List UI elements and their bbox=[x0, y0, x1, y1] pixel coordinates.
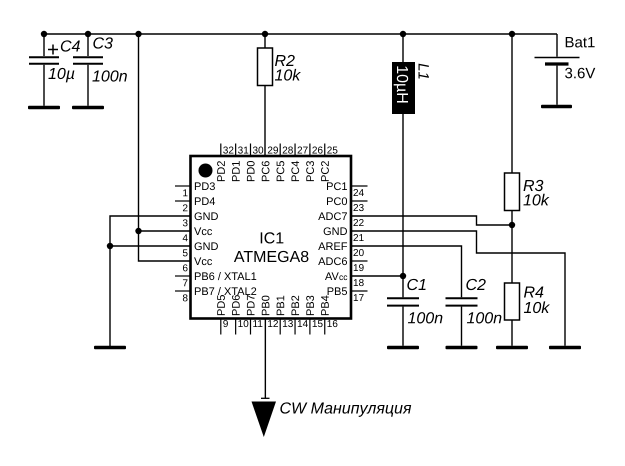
ground C4 bbox=[28, 106, 60, 109]
pin 9 PD5 bbox=[217, 295, 228, 334]
capacitor C3 bbox=[73, 34, 127, 106]
resistor R2 bbox=[258, 34, 301, 156]
wire GND pins 3 and 5 to ground bbox=[110, 216, 191, 347]
pin 13 PB1 bbox=[277, 296, 293, 335]
wire end tick bbox=[261, 397, 270, 399]
pin 6 Vcc bbox=[183, 257, 212, 271]
node GND-pin5 bbox=[107, 243, 113, 249]
wire PB0 pin12 output bbox=[264, 319, 266, 399]
pin 10 PD6 bbox=[232, 295, 248, 334]
inductor L1 bbox=[392, 34, 429, 276]
wire GND pin21 to ground bbox=[351, 231, 565, 346]
wire battery drop bbox=[556, 34, 558, 57]
ground C2 bbox=[446, 346, 478, 349]
wire Vcc drop to pins 4 and 6 bbox=[139, 34, 191, 261]
pin 16 PB4 bbox=[321, 296, 337, 335]
pin 17 PB5 bbox=[328, 287, 368, 301]
node rail-C4 bbox=[41, 31, 47, 37]
pin 32 PD2 bbox=[217, 144, 233, 182]
node rail-L1 bbox=[400, 31, 406, 37]
wire AREF pin20 to C2 bbox=[351, 246, 462, 297]
pin 26 PC3 bbox=[306, 144, 322, 182]
pin 2 PD4 bbox=[175, 197, 215, 211]
pin 28 PC5 bbox=[277, 144, 293, 182]
pin 18 AVcc bbox=[325, 272, 364, 286]
resistor R3 bbox=[505, 34, 550, 283]
ground Bat1 bbox=[541, 105, 572, 108]
ground R4 bbox=[496, 346, 528, 349]
pin 14 PB2 bbox=[291, 296, 308, 335]
pin 31 PD1 bbox=[232, 144, 248, 182]
pin 25 PC2 bbox=[321, 144, 337, 182]
op-amp IC1 ATMEGA8 body bbox=[191, 156, 352, 319]
pin 20 AREF bbox=[318, 242, 364, 256]
pin 5 GND bbox=[183, 242, 218, 256]
ground C1 bbox=[387, 346, 419, 349]
pin 1 PD3 bbox=[175, 182, 215, 196]
pin 4 Vcc bbox=[183, 227, 212, 241]
node Vcc-pin4 bbox=[135, 228, 141, 234]
pin 24 PC1 bbox=[327, 182, 368, 196]
pin 7 PB6/XTAL1 bbox=[175, 272, 256, 286]
ground left bbox=[94, 346, 126, 349]
pin 15 PB3 bbox=[306, 296, 322, 335]
pin 30 PD0 bbox=[247, 144, 263, 182]
pin 8 PB7/XTAL2 bbox=[175, 287, 256, 301]
capacitor C4 bbox=[29, 34, 80, 106]
ground C3 bbox=[72, 106, 104, 109]
pin 27 PC4 bbox=[291, 144, 307, 182]
pin 1 indicator dot bbox=[199, 164, 213, 178]
pin 21 GND bbox=[324, 227, 364, 241]
resistor R4 bbox=[505, 283, 550, 346]
capacitor C2 bbox=[446, 279, 502, 346]
node output arrow bbox=[252, 402, 277, 438]
capacitor C1 bbox=[387, 276, 442, 346]
pin 29 PC6 bbox=[262, 147, 278, 182]
wire top supply rail bbox=[44, 33, 557, 35]
node rail-C3 bbox=[85, 31, 91, 37]
wire AVcc pin18 to C1 bbox=[351, 275, 403, 277]
pin 19 ADC6 bbox=[318, 257, 367, 271]
pin 11 PD7 bbox=[247, 295, 262, 334]
node rail-Vcc bbox=[135, 31, 141, 37]
wire ADC7 pin22 to R3/R4 node bbox=[351, 216, 512, 225]
node CW label bbox=[280, 402, 411, 416]
node ADC7-R3-R4 bbox=[509, 222, 515, 228]
pin 3 GND bbox=[183, 212, 218, 226]
node rail-R2 bbox=[262, 31, 268, 37]
battery Bat1 bbox=[535, 37, 596, 105]
node AVcc-C1 bbox=[400, 273, 406, 279]
node rail-R3 bbox=[509, 31, 515, 37]
pin 12 PB0 bbox=[262, 296, 278, 327]
ground right bbox=[549, 346, 581, 349]
pin 23 PC0 bbox=[327, 197, 368, 211]
pin 22 ADC7 bbox=[318, 212, 363, 226]
